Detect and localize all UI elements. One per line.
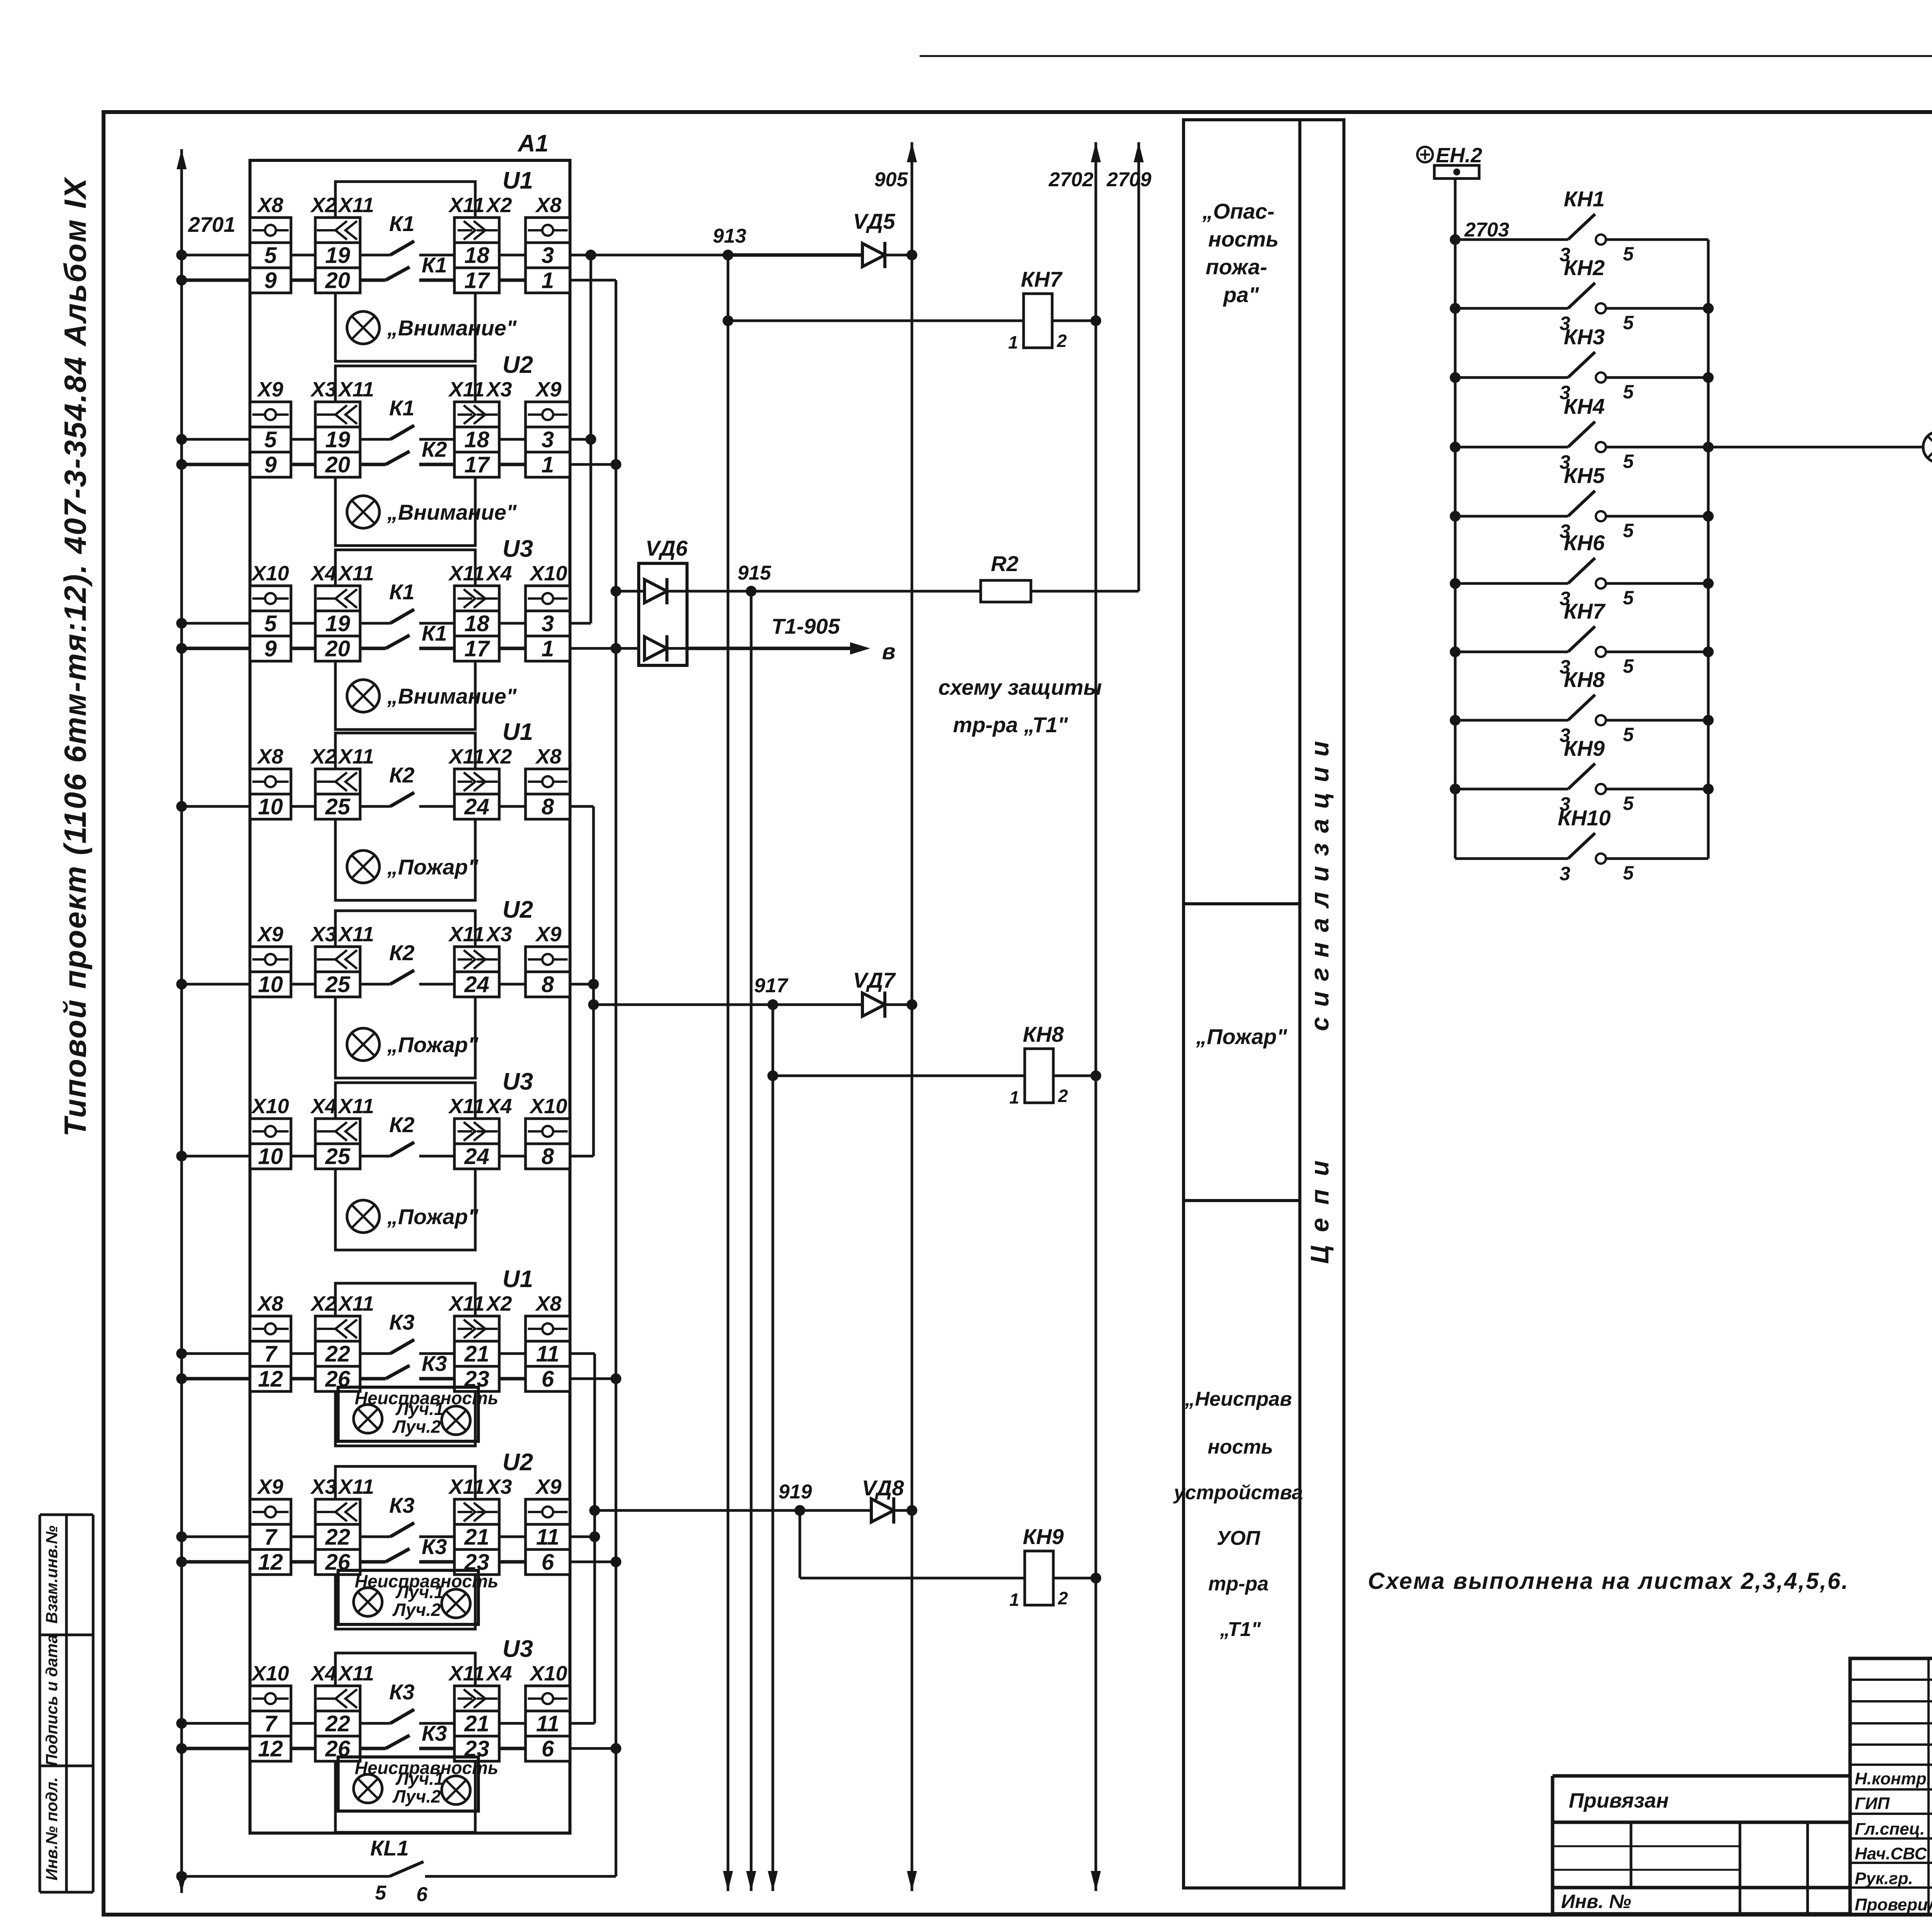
junction dot bus/KL1 <box>176 1871 187 1882</box>
junction dot ladder left row 6 <box>1450 578 1461 589</box>
svg-text:Х8: Х8 <box>257 745 283 768</box>
lamp Внимание module 1 <box>347 311 379 344</box>
svg-text:Х10: Х10 <box>251 562 289 585</box>
wire bus 2701 vertical <box>177 149 187 1893</box>
junction dot column B / VD6 upper input <box>611 586 621 597</box>
junction dot ladder left row 5 <box>1450 511 1461 522</box>
svg-text:КН6: КН6 <box>1564 531 1605 555</box>
svg-text:17: 17 <box>464 636 490 662</box>
svg-text:Х4: Х4 <box>485 562 512 585</box>
connector Х3/Х11 module 8 <box>310 1475 374 1575</box>
connector Х10 module 6 (left) <box>250 1095 291 1169</box>
svg-text:Х8: Х8 <box>535 194 561 217</box>
svg-text:Луч.1: Луч.1 <box>395 1582 444 1602</box>
wire U3 pin11 stub (group3) <box>570 1722 595 1725</box>
designator КН7 <box>1564 599 1606 623</box>
lamp Луч.1 module 8 <box>354 1588 382 1616</box>
connector Х9 module 5 (right) <box>526 923 570 997</box>
svg-text:КН3: КН3 <box>1564 325 1605 349</box>
svg-text:3: 3 <box>541 611 554 636</box>
connector Х11/Х4 module 9 <box>448 1662 512 1762</box>
wire ladder left vertical net 2703 <box>1454 179 1457 859</box>
svg-text:Луч.2: Луч.2 <box>392 1417 441 1437</box>
junction dot ladder left KH1 <box>1450 234 1461 245</box>
junction dot ladder right row 4 <box>1703 442 1714 452</box>
wire net 913 row (U1 pin3 to node 913) <box>570 254 728 257</box>
connector Х9 module 8 (left) <box>250 1475 291 1575</box>
svg-text:„Внимание": „Внимание" <box>387 316 517 340</box>
svg-text:Х10: Х10 <box>529 562 567 585</box>
svg-text:R2: R2 <box>991 551 1019 576</box>
designator R2 <box>991 551 1019 576</box>
contact КН6 <box>1568 558 1606 588</box>
pin 3 КН5 <box>1560 520 1570 542</box>
node 913 <box>713 225 747 260</box>
connector Х4/Х11 module 6 <box>310 1095 374 1169</box>
svg-text:ра": ра" <box>1223 282 1259 307</box>
wire U1 pin1 to column B <box>570 279 616 282</box>
label Луч.1 module 7 <box>395 1399 444 1419</box>
svg-text:25: 25 <box>325 972 350 997</box>
junction dot pins8 column / 917 feed <box>588 999 599 1010</box>
svg-text:Нач.СВС: Нач.СВС <box>1855 1844 1927 1863</box>
lamp H4 <box>1923 432 1932 463</box>
contact КН5 <box>1568 491 1606 521</box>
outer thin border top line <box>920 55 1932 57</box>
svg-text:К2: К2 <box>422 437 447 461</box>
indication box Неисправность module 9 <box>338 1757 478 1811</box>
connector Х9 module 2 (right) <box>526 378 570 478</box>
label Пожар module 6 <box>387 1204 479 1229</box>
pin 2 KH7 <box>1056 331 1067 351</box>
svg-text:КН5: КН5 <box>1564 463 1605 488</box>
svg-text:5: 5 <box>1623 381 1634 403</box>
connector Х11/Х2 module 7 <box>448 1292 512 1392</box>
pin 6 KL1 <box>417 1883 428 1906</box>
left margin stamp column text: Типовой проект <box>58 177 92 1137</box>
junction dot ladder right row 2 <box>1703 303 1714 314</box>
svg-text:6: 6 <box>541 1550 554 1575</box>
svg-text:17: 17 <box>464 268 490 293</box>
designator КН6 <box>1564 531 1605 555</box>
svg-text:2701: 2701 <box>188 213 235 236</box>
contact КН10 <box>1568 833 1606 864</box>
label Внимание module 1 <box>387 316 517 340</box>
net label 2702 top <box>1048 168 1094 191</box>
label Луч.1 module 8 <box>395 1582 444 1602</box>
svg-text:Х11: Х11 <box>337 562 374 585</box>
svg-text:КН9: КН9 <box>1564 736 1605 760</box>
svg-text:1: 1 <box>541 268 554 293</box>
wire row КН2 left <box>1455 307 1568 310</box>
wire KH8 feed <box>773 1075 1025 1077</box>
svg-text:„Пожар": „Пожар" <box>387 855 479 879</box>
label Неисправность module 9 <box>355 1758 498 1778</box>
wire bus to connector pins row b module 3 <box>182 647 526 650</box>
svg-text:20: 20 <box>325 452 350 478</box>
wire bus to connector pins row a module 9 <box>182 1722 526 1725</box>
designator U3 <box>502 1068 533 1095</box>
svg-text:18: 18 <box>464 243 490 268</box>
svg-text:2703: 2703 <box>1464 219 1509 241</box>
relay coil KH7 <box>1024 294 1052 348</box>
svg-text:U2: U2 <box>502 1449 533 1476</box>
svg-text:2702: 2702 <box>1048 168 1094 191</box>
lamp Луч.1 module 9 <box>354 1774 382 1803</box>
junction dot 2702/KH7 <box>1090 315 1101 326</box>
wire KH7 feed from 913 column <box>728 320 1024 322</box>
connector Х11/Х2 module 4 <box>448 745 512 820</box>
label сигнализации (rotated, table1) <box>1305 731 1334 1031</box>
svg-text:Х11: Х11 <box>337 1292 374 1315</box>
designator VD8 <box>862 1476 905 1500</box>
contact К2 module 5 row a <box>389 940 415 984</box>
svg-text:Х2: Х2 <box>310 745 337 768</box>
wire column pins 11 (group 3) <box>594 1354 596 1723</box>
svg-text:К1: К1 <box>389 211 415 236</box>
svg-text:Х4: Х4 <box>310 1095 337 1118</box>
designator U3 <box>502 536 533 562</box>
wire column A (pins 3) <box>590 255 592 623</box>
svg-text:3: 3 <box>1560 863 1570 884</box>
svg-text:Х11: Х11 <box>448 194 485 217</box>
svg-text:18: 18 <box>464 427 490 452</box>
designator U2 <box>502 896 533 923</box>
lamp Внимание module 3 <box>347 680 379 712</box>
contact КН1 <box>1568 214 1606 245</box>
svg-text:22: 22 <box>325 1711 350 1736</box>
svg-text:VД8: VД8 <box>862 1476 905 1500</box>
connector Х8 module 7 (left) <box>250 1292 291 1392</box>
designator U1 <box>502 719 533 745</box>
svg-text:6: 6 <box>541 1367 554 1392</box>
svg-text:5: 5 <box>375 1882 387 1904</box>
svg-text:905: 905 <box>874 168 908 191</box>
wire row КН5 left <box>1455 515 1568 518</box>
svg-text:Рук.гр.: Рук.гр. <box>1855 1869 1913 1888</box>
svg-text:1: 1 <box>1009 1087 1019 1107</box>
svg-text:„Внимание": „Внимание" <box>387 500 517 524</box>
svg-text:5: 5 <box>264 243 277 268</box>
wire 919 drop to KH9 <box>800 1510 1025 1578</box>
svg-text:КН7: КН7 <box>1021 267 1063 291</box>
label Инв.№ <box>1561 1891 1631 1912</box>
label Пожар module 4 <box>387 855 479 879</box>
svg-text:Х2: Х2 <box>310 1292 337 1315</box>
wire bus to connector pins row a module 7 <box>182 1352 526 1355</box>
designator VD6 <box>646 536 688 560</box>
wire bus to connector pins row b module 1 <box>182 279 526 282</box>
svg-text:„Пожар": „Пожар" <box>387 1032 479 1057</box>
svg-text:тр-ра „Т1": тр-ра „Т1" <box>953 713 1068 737</box>
designator KH9 <box>1023 1524 1064 1549</box>
connector Х4/Х11 module 9 <box>310 1662 374 1762</box>
svg-text:U2: U2 <box>502 352 533 378</box>
svg-text:сигнализации: сигнализации <box>1305 731 1334 1031</box>
svg-text:Х11: Х11 <box>448 923 485 946</box>
connector Х2/Х11 module 7 <box>310 1292 374 1392</box>
svg-text:U3: U3 <box>502 536 533 562</box>
net label 2701 <box>188 213 235 236</box>
connector Х2/Х11 module 4 <box>310 745 374 820</box>
svg-text:ность: ность <box>1207 1436 1273 1458</box>
junction dot 917/KH8 <box>767 1070 778 1081</box>
svg-text:ЕН.2: ЕН.2 <box>1436 144 1482 167</box>
svg-text:Т1-905: Т1-905 <box>771 614 840 638</box>
wire bus to connector pins row a module 1 <box>182 254 526 257</box>
svg-text:пожа-: пожа- <box>1206 255 1267 279</box>
designator КН1 <box>1564 187 1605 211</box>
svg-text:22: 22 <box>325 1525 350 1550</box>
node 915 <box>738 562 772 597</box>
module U2 box (row 8) <box>335 1466 475 1629</box>
junction dot ladder left row 7 <box>1450 646 1461 657</box>
junction dot bus row b module 2 <box>176 459 187 470</box>
label Неисправность module 7 <box>355 1388 498 1408</box>
svg-text:Х8: Х8 <box>257 1292 283 1315</box>
terminal +EH.2 <box>1434 165 1479 179</box>
pin 1 KH8 <box>1009 1087 1019 1107</box>
label Внимание module 2 <box>387 500 517 524</box>
svg-text:тр-ра: тр-ра <box>1208 1573 1269 1595</box>
svg-text:К1: К1 <box>422 253 447 277</box>
wire bus to connector pins row a module 3 <box>182 622 526 625</box>
diode VD6 upper <box>616 578 687 604</box>
module U2 box (row 2) <box>335 366 475 546</box>
wire row КН1 left <box>1455 238 1568 241</box>
svg-text:3: 3 <box>541 427 554 452</box>
wire U3 pin1 stub to VD6 lower <box>570 647 639 650</box>
wire row КН6 left <box>1455 582 1568 585</box>
pin 3 КН1 <box>1560 244 1570 265</box>
svg-text:КН8: КН8 <box>1023 1022 1064 1046</box>
label Неисправность module 8 <box>355 1571 498 1591</box>
svg-text:Привязан: Привязан <box>1569 1789 1669 1812</box>
junction dot bus row b module 7 <box>176 1373 187 1384</box>
junction dot bus row a module 4 <box>176 801 187 812</box>
connector Х9 module 8 (right) <box>526 1475 570 1575</box>
wire row КН7 right <box>1606 651 1708 653</box>
contact К3 module 8 row a <box>389 1493 415 1537</box>
wire net 913 vertical <box>723 255 733 1891</box>
svg-text:10: 10 <box>258 972 283 997</box>
svg-text:„Неисправ: „Неисправ <box>1184 1388 1292 1410</box>
pin 5 КН7 <box>1623 655 1634 677</box>
connector Х8 module 7 (right) <box>526 1292 570 1392</box>
svg-text:КН1: КН1 <box>1564 187 1605 211</box>
svg-text:Х8: Х8 <box>257 194 283 217</box>
designator КН8 <box>1564 667 1605 692</box>
svg-text:17: 17 <box>464 452 490 478</box>
junction dot ladder right row 3 <box>1703 372 1714 383</box>
svg-text:в: в <box>882 639 895 664</box>
wire 913 to VD5 anode <box>728 253 862 257</box>
junction dot bus row a module 1 <box>176 250 187 260</box>
designator КН10 <box>1558 806 1611 830</box>
label +EH.2 <box>1417 144 1482 167</box>
indication box Неисправность module 7 <box>338 1387 478 1441</box>
designator U1 <box>502 167 533 194</box>
connector Х8 module 1 (left) <box>250 194 291 293</box>
svg-text:Х9: Х9 <box>535 1475 561 1498</box>
svg-text:схему защиты: схему защиты <box>938 675 1102 699</box>
left margin small table <box>40 1515 93 1892</box>
svg-text:Х4: Х4 <box>310 562 337 585</box>
designator KH8 <box>1023 1022 1064 1046</box>
svg-text:919: 919 <box>779 1481 812 1503</box>
svg-text:11: 11 <box>536 1525 559 1550</box>
contact КН8 <box>1568 695 1606 725</box>
junction dot bus row a module 5 <box>176 979 187 990</box>
svg-text:Х9: Х9 <box>257 378 283 401</box>
pin 3 КН9 <box>1560 793 1570 815</box>
wire row КН8 right <box>1606 719 1708 722</box>
svg-text:9: 9 <box>264 268 277 293</box>
wire net 915 (VD6 upper out to resistor R2 and 2709) <box>687 590 1139 593</box>
connector Х2/Х11 module 1 <box>310 194 374 293</box>
node 917 <box>754 975 789 1010</box>
svg-text:ГИП: ГИП <box>1855 1794 1890 1813</box>
svg-text:Х11: Х11 <box>337 1095 374 1118</box>
contact К1 module 1 row b <box>386 253 447 280</box>
module U3 box (row 9) <box>335 1653 475 1832</box>
svg-text:Х3: Х3 <box>485 923 512 946</box>
junction dot column B / U2 pin1 <box>611 459 621 470</box>
contact К1 module 3 row b <box>386 621 447 648</box>
svg-text:Х2: Х2 <box>310 194 337 217</box>
svg-text:7: 7 <box>264 1342 278 1367</box>
svg-text:VД6: VД6 <box>646 536 688 560</box>
contact КН7 <box>1568 626 1606 657</box>
wire U2 pin11 stub (group3) <box>570 1536 595 1538</box>
svg-text:КL1: КL1 <box>370 1836 409 1860</box>
junction dot 905/VD7 <box>906 999 917 1010</box>
module U1 box (row 4) <box>335 733 475 900</box>
svg-text:24: 24 <box>464 1144 490 1169</box>
wire KL1 to column B <box>425 1875 616 1878</box>
svg-text:1: 1 <box>1009 1590 1019 1610</box>
designator КН4 <box>1564 394 1605 418</box>
svg-text:Х11: Х11 <box>337 745 374 768</box>
connector Х11/Х3 module 5 <box>448 923 512 997</box>
contact KL1 <box>370 1836 423 1876</box>
svg-text:К3: К3 <box>389 1680 415 1704</box>
svg-text:КН7: КН7 <box>1564 599 1606 623</box>
svg-text:Подпись и дата: Подпись и дата <box>43 1634 61 1766</box>
svg-text:Х11: Х11 <box>448 378 485 401</box>
svg-text:5: 5 <box>1623 862 1634 884</box>
svg-text:К1: К1 <box>389 580 415 604</box>
svg-text:20: 20 <box>325 636 350 662</box>
wire column B (pins 1/6, long vertical) <box>615 280 617 1876</box>
junction dot bus row a module 9 <box>176 1718 187 1729</box>
svg-text:Х4: Х4 <box>310 1662 337 1685</box>
contact К2 module 2 row b <box>386 437 447 464</box>
svg-text:U3: U3 <box>502 1068 533 1095</box>
junction dot bus row a module 3 <box>176 618 187 629</box>
wire net 2702 vertical <box>1091 142 1101 1891</box>
label Взам. инв. № <box>43 1526 61 1624</box>
svg-text:Х2: Х2 <box>485 745 512 768</box>
svg-text:VД7: VД7 <box>853 968 896 992</box>
connector Х3/Х11 module 5 <box>310 923 374 997</box>
pin 2 KH9 <box>1058 1588 1068 1608</box>
svg-text:U1: U1 <box>502 167 533 194</box>
label Пожар (table) <box>1196 1024 1287 1049</box>
indication box Неисправность module 8 <box>338 1570 478 1624</box>
junction dot column B / U2 pin6 <box>611 1556 621 1567</box>
label Инв. № подл. <box>43 1777 61 1880</box>
svg-text:Луч.2: Луч.2 <box>392 1786 441 1806</box>
connector Х10 module 3 (left) <box>250 562 291 662</box>
svg-text:А1: А1 <box>517 130 548 157</box>
svg-text:917: 917 <box>754 975 789 997</box>
svg-text:К3: К3 <box>389 1310 415 1334</box>
lamp Луч.2 module 9 <box>442 1776 470 1804</box>
svg-text:2: 2 <box>1058 1086 1068 1106</box>
svg-text:КН2: КН2 <box>1564 255 1605 280</box>
module U1 box (row 7) <box>335 1283 475 1446</box>
lamp Луч.2 module 8 <box>442 1589 470 1618</box>
lamp Луч.1 module 7 <box>354 1405 382 1433</box>
junction dot ladder left row 10 <box>1455 858 1456 859</box>
wire U2 pin3 stub <box>570 438 591 441</box>
svg-text:7: 7 <box>264 1711 278 1736</box>
svg-text:Луч.1: Луч.1 <box>395 1399 444 1419</box>
designator КН9 <box>1564 736 1605 760</box>
designator U3 <box>502 1636 533 1662</box>
svg-text:Гл.спец.: Гл.спец. <box>1855 1820 1925 1838</box>
svg-text:„Пожар": „Пожар" <box>1196 1024 1287 1049</box>
svg-text:К2: К2 <box>389 1112 415 1137</box>
svg-text:Х11: Х11 <box>337 1475 374 1498</box>
svg-text:5: 5 <box>1623 587 1634 609</box>
svg-text:КН10: КН10 <box>1558 806 1611 830</box>
wire net 2709 vertical <box>1134 142 1144 591</box>
wire U2 pin6 stub (group3) <box>570 1561 616 1563</box>
svg-text:Х11: Х11 <box>337 1662 374 1685</box>
svg-text:Х11: Х11 <box>337 378 374 401</box>
device block A1 outline <box>250 160 570 1833</box>
lamp Пожар module 4 <box>347 850 379 883</box>
svg-text:8: 8 <box>541 972 554 997</box>
svg-text:5: 5 <box>1623 243 1634 265</box>
svg-text:Х8: Х8 <box>535 1292 561 1315</box>
svg-text:Проверил: Проверил <box>1855 1895 1932 1914</box>
contact КН9 <box>1568 764 1606 794</box>
wire row КН4 left <box>1455 446 1568 449</box>
wire bus to connector pins row b module 8 <box>182 1560 526 1564</box>
label Пожар module 5 <box>387 1032 479 1057</box>
relay coil KH9 <box>1025 1551 1053 1605</box>
wire U1 pin6 stub (group3) <box>570 1378 616 1380</box>
wire U2 pin8 stub (group2) <box>570 983 594 986</box>
wire bus to connector pins row a module 2 <box>182 438 526 441</box>
svg-text:К3: К3 <box>422 1721 447 1745</box>
junction dot column B / VD6 lower input <box>611 643 621 654</box>
junction dot column B / U3 pin6 <box>611 1743 621 1754</box>
svg-text:915: 915 <box>738 562 772 584</box>
designator KH7 <box>1021 267 1063 291</box>
svg-text:Х9: Х9 <box>257 1475 283 1498</box>
svg-text:12: 12 <box>258 1367 283 1392</box>
junction dot bus row b module 9 <box>176 1743 187 1754</box>
junction dot bus row a module 6 <box>176 1151 187 1162</box>
svg-text:„Т1": „Т1" <box>1219 1618 1261 1641</box>
contact К3 module 9 row b <box>386 1721 447 1748</box>
svg-text:7: 7 <box>264 1525 278 1550</box>
wire bus to connector pins row b module 2 <box>182 463 526 466</box>
